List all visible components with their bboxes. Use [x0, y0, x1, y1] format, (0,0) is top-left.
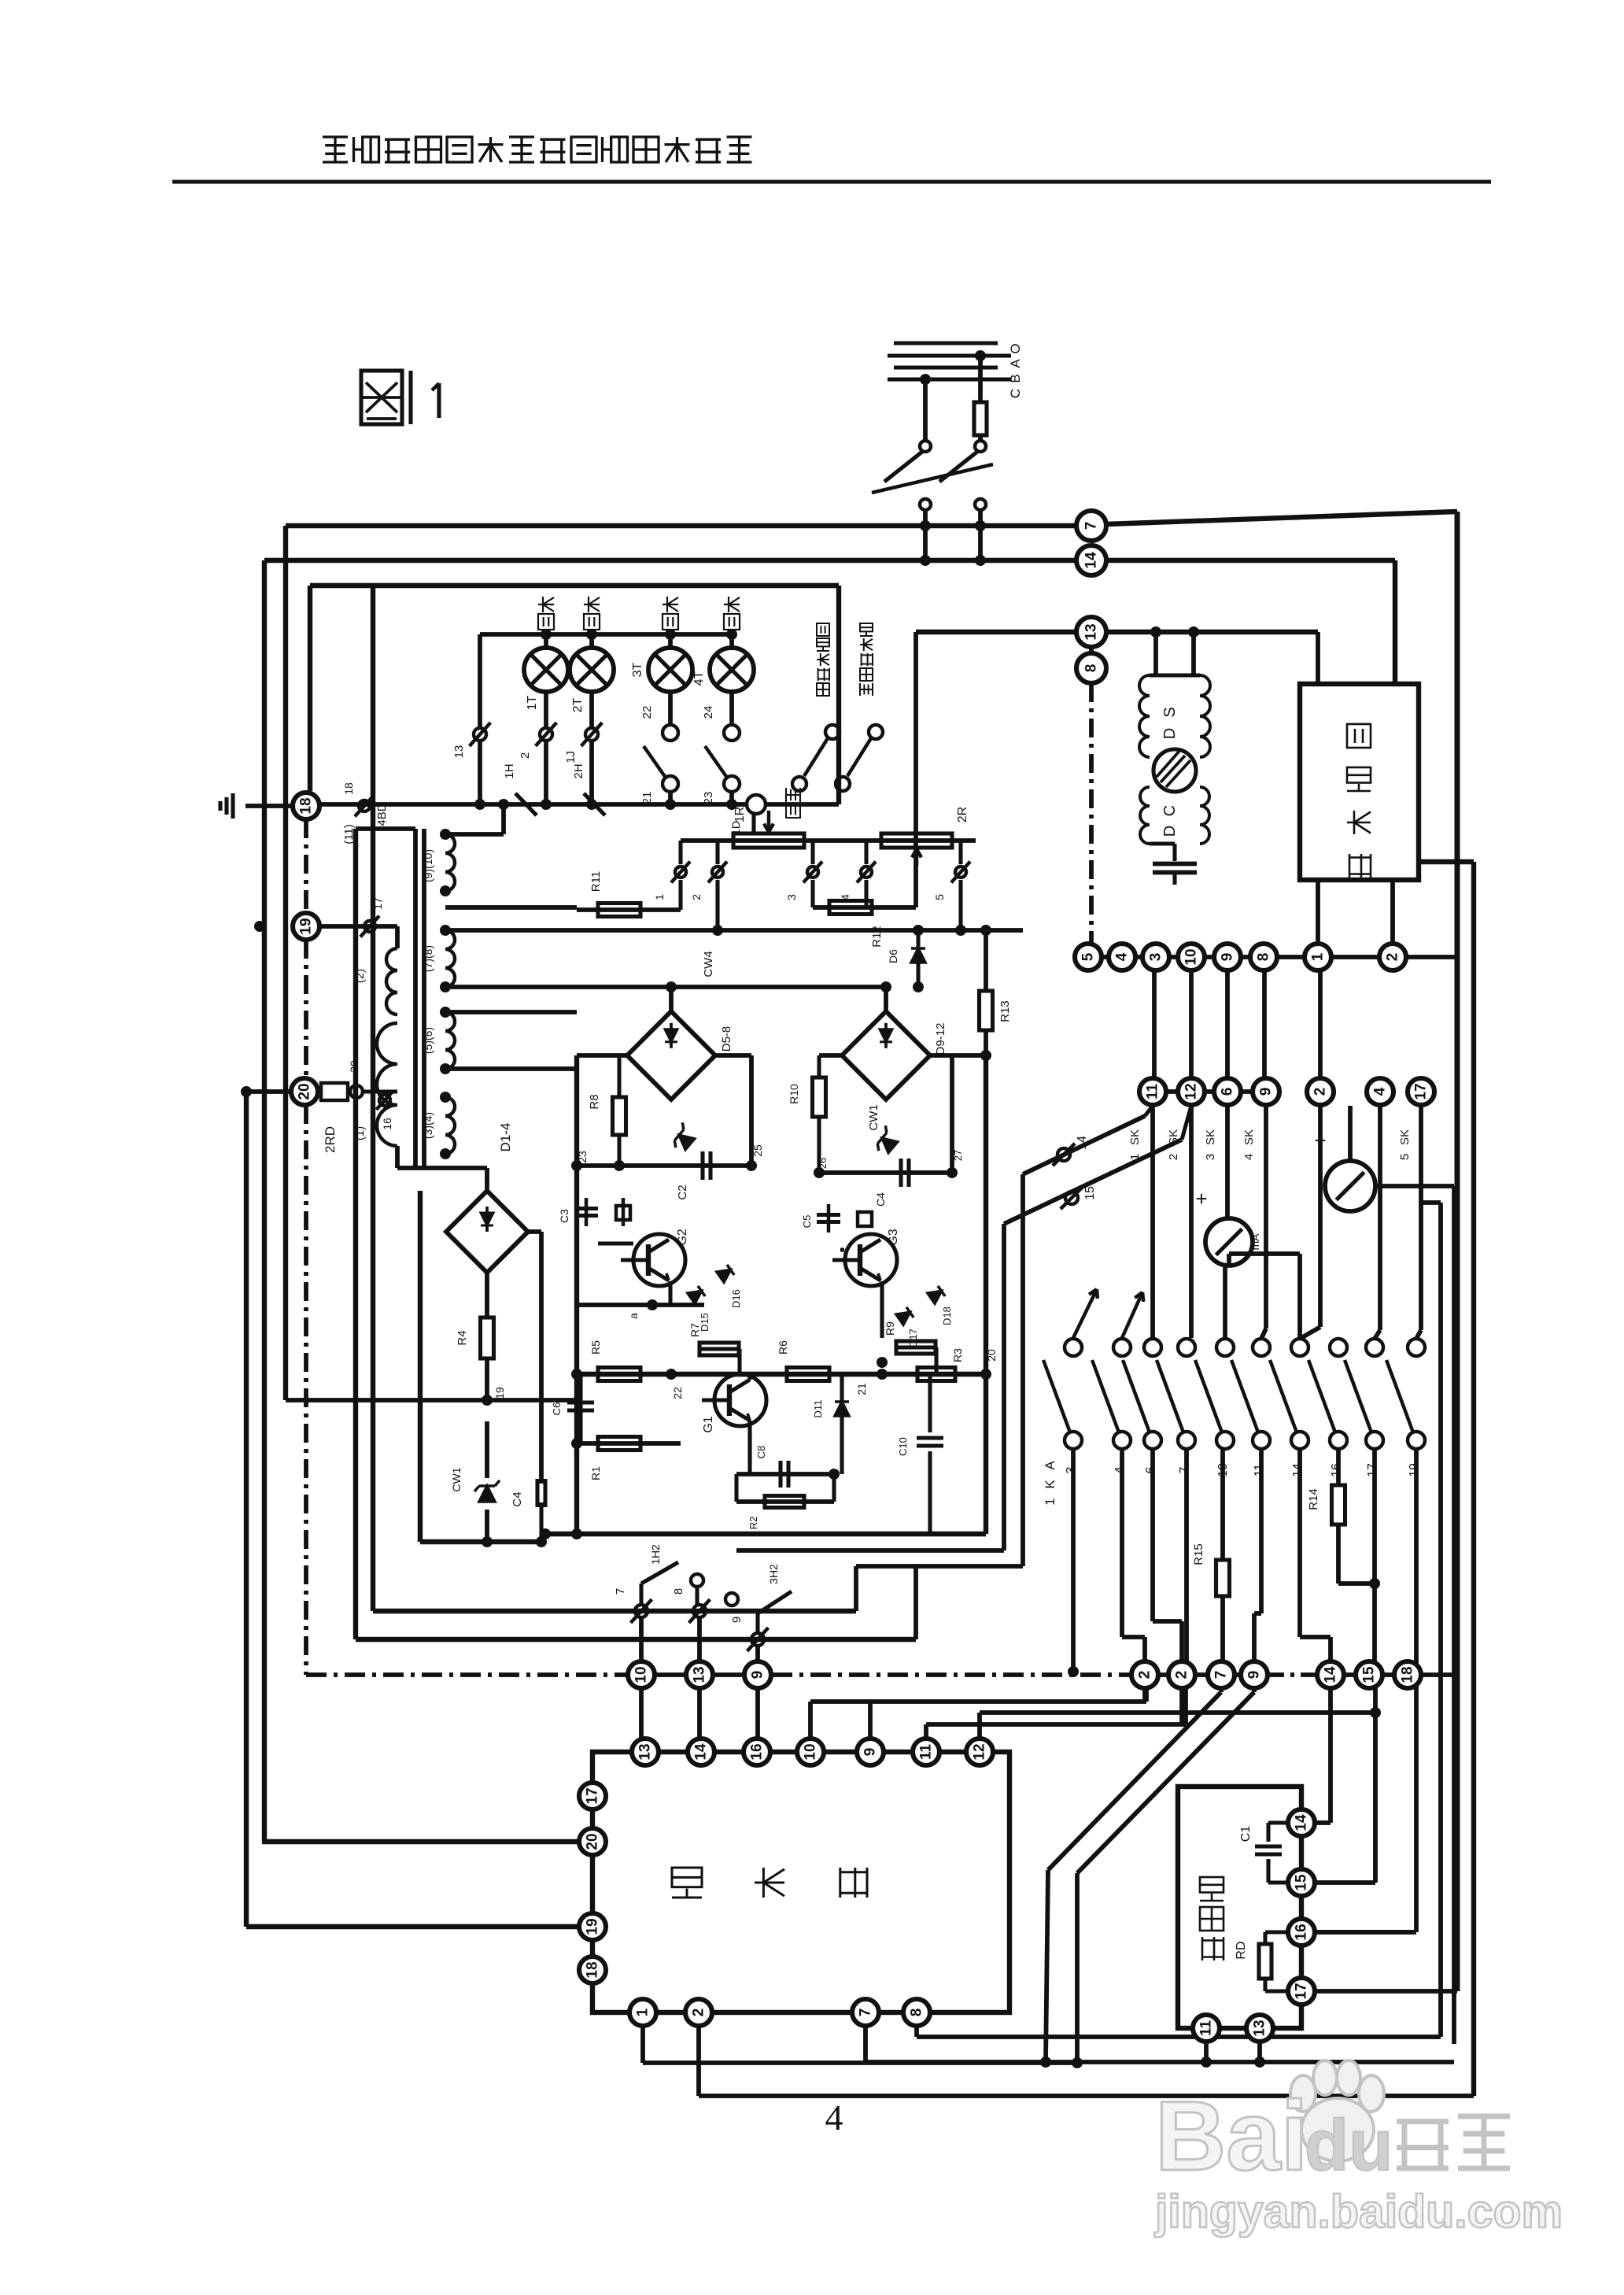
svg-text:D: D	[1161, 728, 1179, 739]
svg-text:C3: C3	[558, 1209, 570, 1223]
svg-text:2: 2	[1385, 953, 1401, 962]
svg-text:C10: C10	[897, 1437, 909, 1456]
svg-text:D9-12: D9-12	[934, 1023, 947, 1055]
svg-text:2RD: 2RD	[323, 1126, 338, 1153]
svg-text:24: 24	[702, 706, 715, 719]
svg-text:C: C	[1161, 805, 1179, 816]
svg-text:14: 14	[1323, 1666, 1339, 1683]
svg-text:3H2: 3H2	[767, 1564, 780, 1584]
svg-text:7: 7	[1213, 1671, 1230, 1680]
svg-text:R5: R5	[589, 1340, 602, 1354]
svg-text:2: 2	[1167, 1154, 1180, 1160]
svg-text:CW1: CW1	[450, 1467, 463, 1491]
svg-text:1H: 1H	[503, 763, 516, 778]
svg-text:C2: C2	[676, 1184, 689, 1199]
svg-text:D17: D17	[907, 1329, 919, 1347]
svg-text:R6: R6	[777, 1340, 789, 1354]
svg-text:3T: 3T	[631, 662, 644, 677]
svg-text:14: 14	[1083, 552, 1100, 569]
svg-text:13: 13	[1083, 623, 1100, 640]
svg-text:3: 3	[1204, 1154, 1217, 1160]
svg-text:21: 21	[855, 1383, 868, 1395]
svg-text:16: 16	[1294, 1924, 1310, 1940]
svg-text:17: 17	[1294, 1983, 1310, 1999]
svg-text:18: 18	[298, 797, 315, 814]
svg-text:26: 26	[817, 1158, 829, 1169]
svg-text:C1: C1	[1239, 1826, 1253, 1842]
svg-text:2R: 2R	[956, 807, 969, 822]
svg-text:R9: R9	[884, 1321, 896, 1336]
svg-text:8: 8	[1083, 664, 1100, 673]
svg-text:a: a	[627, 1313, 640, 1319]
svg-text:12: 12	[972, 1743, 988, 1760]
svg-text:5: 5	[1398, 1154, 1412, 1160]
svg-text:19: 19	[298, 918, 315, 934]
svg-text:R4: R4	[456, 1330, 469, 1345]
svg-text:11: 11	[918, 1744, 935, 1761]
svg-text:D16: D16	[730, 1289, 742, 1308]
svg-text:16: 16	[381, 1118, 393, 1130]
svg-text:R10: R10	[788, 1084, 800, 1104]
svg-text:15: 15	[1361, 1666, 1378, 1683]
svg-text:4: 4	[825, 2097, 843, 2138]
svg-text:CW1: CW1	[867, 1104, 880, 1130]
svg-text:2H: 2H	[572, 763, 585, 778]
svg-text:(9)(10): (9)(10)	[422, 849, 434, 882]
svg-text:R15: R15	[1192, 1543, 1205, 1565]
svg-text:11: 11	[1145, 1084, 1161, 1100]
svg-text:22: 22	[640, 706, 654, 719]
svg-text:9: 9	[750, 1671, 766, 1680]
svg-text:mA: mA	[1249, 1233, 1261, 1251]
svg-text:20: 20	[297, 1083, 313, 1099]
svg-text:2: 2	[519, 752, 532, 759]
svg-text:du: du	[1305, 2105, 1393, 2186]
svg-text:11: 11	[1198, 2020, 1215, 2037]
svg-text:16: 16	[749, 1743, 766, 1760]
svg-text:(7)(8): (7)(8)	[422, 945, 434, 972]
svg-text:SK: SK	[1242, 1129, 1256, 1145]
svg-text:9: 9	[1258, 1088, 1275, 1096]
svg-text:C6: C6	[551, 1402, 563, 1416]
svg-text:A: A	[1008, 359, 1023, 368]
svg-text:14: 14	[1294, 1814, 1310, 1831]
svg-text:2: 2	[1312, 1088, 1329, 1096]
svg-text:R2: R2	[747, 1517, 759, 1530]
svg-text:D1-4: D1-4	[498, 1123, 513, 1152]
svg-text:10: 10	[1183, 948, 1200, 965]
svg-text:2: 2	[1174, 1671, 1190, 1680]
svg-text:14: 14	[1076, 1136, 1089, 1150]
svg-text:S: S	[1161, 707, 1179, 717]
svg-text:4: 4	[1372, 1087, 1389, 1096]
svg-text:1: 1	[653, 894, 666, 900]
svg-text:8: 8	[672, 1588, 685, 1595]
svg-text:21: 21	[640, 792, 654, 805]
svg-text:22: 22	[671, 1387, 684, 1399]
svg-text:R1: R1	[589, 1466, 602, 1480]
svg-text:R13: R13	[998, 1000, 1012, 1022]
svg-text:8: 8	[909, 2009, 925, 2017]
svg-text:1J: 1J	[564, 751, 578, 763]
svg-text:25: 25	[751, 1144, 764, 1157]
svg-text:7: 7	[858, 2009, 874, 2017]
svg-text:SK: SK	[1204, 1129, 1217, 1145]
svg-text:13: 13	[692, 1666, 708, 1683]
svg-text:9: 9	[862, 1748, 879, 1757]
svg-text:13: 13	[637, 1743, 654, 1760]
svg-text:2T: 2T	[571, 697, 585, 712]
svg-text:4: 4	[1114, 952, 1131, 961]
svg-text:K: K	[1043, 1480, 1057, 1489]
svg-text:19: 19	[585, 1918, 601, 1935]
svg-text:O: O	[1008, 343, 1023, 353]
svg-text:4: 4	[1242, 1154, 1256, 1160]
svg-text:4T: 4T	[692, 671, 706, 686]
svg-text:14: 14	[693, 1743, 710, 1761]
svg-text:20: 20	[585, 1833, 601, 1850]
svg-text:17: 17	[1413, 1083, 1430, 1099]
svg-text:6: 6	[1220, 1088, 1236, 1096]
svg-text:D18: D18	[941, 1306, 953, 1325]
svg-text:R7: R7	[688, 1323, 701, 1337]
svg-text:CW4: CW4	[702, 951, 715, 977]
svg-text:C4: C4	[874, 1192, 887, 1207]
svg-text:15: 15	[1294, 1874, 1310, 1891]
svg-text:3: 3	[785, 894, 798, 900]
svg-text:13: 13	[1252, 2020, 1268, 2036]
svg-text:C5: C5	[801, 1215, 813, 1229]
svg-text:C8: C8	[755, 1446, 767, 1459]
svg-text:1: 1	[1043, 1498, 1057, 1505]
svg-text:19: 19	[493, 1387, 506, 1399]
svg-text:23: 23	[702, 792, 715, 805]
svg-text:R3: R3	[951, 1348, 964, 1362]
svg-text:13: 13	[452, 745, 466, 759]
svg-text:A: A	[1043, 1461, 1057, 1470]
svg-text:G3: G3	[887, 1229, 900, 1245]
svg-text:10: 10	[633, 1666, 650, 1683]
svg-text:9: 9	[730, 1617, 744, 1623]
svg-text:18: 18	[342, 782, 355, 795]
svg-text:1: 1	[1310, 952, 1327, 961]
svg-text:jingyan.baidu.com: jingyan.baidu.com	[1154, 2186, 1563, 2238]
svg-text:12: 12	[1183, 1083, 1200, 1099]
svg-text:7: 7	[1083, 522, 1100, 530]
svg-text:2: 2	[690, 894, 703, 900]
svg-text:C: C	[1008, 389, 1023, 398]
svg-text:G2: G2	[676, 1229, 689, 1245]
svg-text:D5-8: D5-8	[720, 1026, 733, 1052]
svg-text:15: 15	[1083, 1186, 1097, 1200]
svg-text:Bai: Bai	[1155, 2082, 1308, 2191]
svg-text:B: B	[1008, 374, 1023, 382]
svg-text:D11: D11	[812, 1400, 824, 1418]
svg-text:9: 9	[1246, 1671, 1263, 1680]
svg-text:1R: 1R	[733, 807, 747, 822]
svg-text:R14: R14	[1307, 1488, 1320, 1510]
svg-text:10: 10	[803, 1743, 819, 1760]
svg-text:18: 18	[1400, 1666, 1416, 1683]
svg-text:18: 18	[585, 1961, 601, 1978]
svg-text:SK: SK	[1398, 1129, 1412, 1145]
svg-text:D: D	[1161, 826, 1179, 837]
svg-text:R11: R11	[589, 871, 603, 892]
svg-text:1T: 1T	[526, 695, 539, 710]
svg-text:(3)(4): (3)(4)	[422, 1112, 434, 1139]
svg-text:3: 3	[1148, 953, 1164, 962]
svg-text:D6: D6	[887, 949, 899, 963]
svg-text:1H2: 1H2	[649, 1544, 662, 1565]
svg-text:C4: C4	[511, 1491, 524, 1506]
svg-text:(5)(6): (5)(6)	[422, 1027, 434, 1054]
svg-text:5: 5	[933, 894, 946, 900]
svg-text:+: +	[1195, 1187, 1207, 1210]
svg-text:27: 27	[952, 1150, 964, 1161]
svg-text:SK: SK	[1128, 1129, 1142, 1145]
svg-text:2: 2	[1137, 1671, 1153, 1680]
svg-text:R8: R8	[588, 1094, 601, 1109]
svg-text:5: 5	[1080, 952, 1097, 961]
svg-text:9: 9	[1220, 953, 1236, 962]
svg-text:17: 17	[585, 1787, 601, 1804]
svg-text:8: 8	[1256, 953, 1272, 962]
svg-text:G1: G1	[702, 1416, 715, 1432]
svg-text:RD: RD	[1235, 1941, 1248, 1959]
svg-text:7: 7	[614, 1588, 627, 1595]
svg-text:2: 2	[691, 2009, 707, 2017]
svg-text:1: 1	[635, 2008, 651, 2016]
